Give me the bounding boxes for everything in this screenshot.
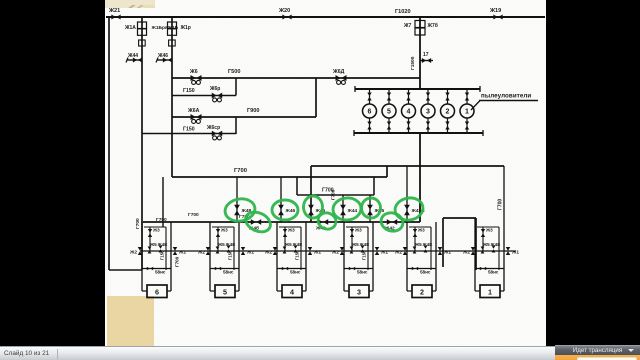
valve Ж4б on distribution line	[251, 219, 261, 225]
valve Ж6А on Г900	[190, 114, 201, 120]
wire furnace 1 left vertical	[474, 218, 476, 270]
wire stub into stove box 5 right	[235, 290, 239, 292]
wire furnace 1 inner-right vertical	[498, 227, 500, 270]
wire furnace 4 loop top	[279, 226, 301, 228]
wire furnace 3 loop top	[346, 226, 368, 228]
wire furnace 5 inner-right vertical	[233, 227, 235, 270]
wire stub into stove box 6 left	[142, 290, 147, 292]
valve below dust collector 1	[465, 122, 469, 130]
wire drop to dust collector 2	[447, 89, 449, 104]
wire furnace 5 left vertical	[209, 222, 211, 270]
dust collector 3	[421, 104, 435, 118]
wire underline at пылеуловители	[479, 100, 538, 102]
wire furnace 5 right drop to stove	[238, 270, 240, 291]
valve seal circles	[337, 80, 341, 84]
wire drop with valve Ж46	[280, 177, 282, 222]
wire furnace 1 right drop to stove	[503, 270, 505, 291]
wire furnace 2 inner-right vertical	[430, 227, 432, 270]
valve Ж2 furnace 3	[340, 247, 344, 255]
tick right end inlet header	[479, 86, 481, 92]
stove box furnace 6	[147, 285, 167, 298]
wire bridge header over furnace 2	[443, 217, 476, 219]
wire from dust collector 6 to outlet header	[369, 118, 371, 133]
highlight circle around Ж42 mid	[316, 210, 338, 231]
wire drop with valve Ж44	[342, 195, 344, 222]
valve Ж44	[340, 205, 346, 215]
valve above dust collector 3	[426, 93, 430, 101]
wire furnace 6 right drop to stove	[170, 270, 172, 291]
valve above dust collector 4	[406, 93, 410, 101]
wire drop to dust collector 5	[388, 89, 390, 104]
wire drop to dust collector 1	[466, 89, 468, 104]
highlight circle around Ж43Б	[393, 196, 424, 223]
wire furnace 2 left vertical	[406, 222, 408, 270]
valve above dust collector 2	[445, 93, 449, 101]
wire furnace 3 left drop to stove	[343, 270, 345, 291]
valve on bottom header furnace 1	[480, 267, 486, 271]
wire from dust collector 5 to outlet header	[388, 118, 390, 133]
wire furnace 6 left drop to stove	[141, 270, 143, 291]
dust collector 1	[460, 104, 474, 118]
valve Ж3 furnace 5	[216, 229, 220, 237]
valve above dust collector 1	[465, 93, 469, 101]
wire drop to dust collector 4	[408, 89, 410, 104]
wire furnace 1 right vertical	[503, 166, 505, 270]
wire drop with valve Ж45	[369, 195, 371, 222]
wire furnace 1 left drop to stove	[474, 270, 476, 291]
valve Ж1 furnace 4	[308, 247, 312, 255]
stove box furnace 1	[480, 285, 500, 298]
highlight circle around Ж47	[272, 200, 298, 220]
wire furnace 5 bottom header	[210, 268, 239, 270]
wire furnace 4 inner-right vertical	[300, 227, 302, 270]
valve Ж5 furnace 5	[216, 247, 220, 254]
wire stub into stove box 1 left	[475, 290, 480, 292]
valve Ж1 furnace 1	[506, 247, 510, 255]
valve 17	[422, 58, 431, 63]
wire furnace 3 right vertical	[372, 222, 374, 270]
wire furnace 2 right drop to stove	[435, 270, 437, 291]
wire furnace 3 inner-left vertical	[351, 227, 353, 251]
wire drop to dust collector 6	[369, 89, 371, 104]
wire Г700 sub-header	[297, 194, 374, 196]
wire stub into stove box 4 left	[277, 290, 282, 292]
valve Ж45	[367, 205, 373, 215]
wire furnace 5 left drop to stove	[209, 270, 211, 291]
highlight circle around Ж44	[332, 197, 362, 221]
wire from dust collector 4 to outlet header	[408, 118, 410, 133]
valve Ж4Е furnace 1	[492, 246, 496, 253]
wire stub with valve 17	[420, 60, 433, 62]
valve below dust collector 5	[387, 122, 391, 130]
wire drop with valve Ж48	[236, 177, 238, 222]
wire stub into stove box 1 right	[500, 290, 504, 292]
wire furnace 2 right vertical	[435, 222, 437, 270]
valve Ж4Е furnace 6	[159, 246, 163, 253]
valve on bottom header furnace 5	[215, 267, 221, 271]
wire furnace 3 left vertical	[343, 222, 345, 270]
end dash vent stub B	[126, 58, 128, 63]
valve Ж5 furnace 3	[350, 247, 354, 254]
valve Ж1 furnace 6	[173, 247, 177, 255]
valve Ж1 furnace 5	[241, 247, 245, 255]
valve Ж1р lower body	[168, 29, 177, 36]
valve on bottom header furnace 4	[282, 267, 288, 271]
highlight circle around Ж42 right	[379, 210, 405, 233]
wire sub-header left drop	[296, 177, 298, 195]
end dash vent stub C	[156, 58, 158, 63]
wire furnace 4 right vertical	[305, 222, 307, 270]
valve Ж21 on main bus	[111, 14, 120, 19]
valve Ж5 furnace 4	[283, 247, 287, 254]
valve Ж3 furnace 4	[283, 229, 287, 237]
wire furnace 5 inner-left vertical	[217, 227, 219, 251]
valve Ж6ср on bypass	[212, 131, 222, 137]
wire bypass riser to Г900	[235, 117, 237, 134]
wire furnace 4 inner-left vertical	[284, 227, 286, 251]
valve Ж4Е furnace 5	[227, 246, 231, 253]
wire interconnecting line Ж1-Ж2 level	[140, 250, 516, 252]
wire dust collector outlet header	[354, 132, 483, 134]
wire stub into stove box 2 left	[407, 290, 412, 292]
wire furnace 5 right vertical	[238, 222, 240, 270]
wire drop with valve Ж43Б	[406, 166, 408, 222]
valve Ж20 on main bus	[282, 14, 291, 19]
wire vent stub from riser B	[127, 59, 142, 61]
dust collector 5	[382, 104, 396, 118]
valve below dust collector 6	[367, 122, 371, 130]
valve Ж2 furnace 6	[138, 247, 142, 255]
valve below dust collector 4	[406, 122, 410, 130]
wire bypass riser to Г500	[235, 78, 237, 96]
wire furnace 6 right vertical	[170, 222, 172, 270]
wire drop feeding furnace 6 loop	[162, 177, 164, 227]
wire stub into stove box 3 left	[344, 290, 349, 292]
wire furnace 3 right drop to stove	[372, 270, 374, 291]
wire Г900 line	[172, 116, 316, 118]
wire furnace 2 inner-left vertical	[414, 227, 416, 251]
valve Ж7 lower body	[415, 28, 425, 35]
valve on bottom header furnace 2	[412, 267, 418, 271]
valve Ж3 furnace 6	[148, 229, 152, 237]
valve Ж43Б	[404, 205, 410, 215]
valve Ж46	[278, 205, 284, 215]
wire vertical riser A (left edge)	[108, 17, 110, 270]
valve Ж2 furnace 1	[471, 247, 475, 255]
wire riser joining Г900 to Г500	[315, 78, 317, 117]
wire distribution line to furnaces	[143, 221, 420, 223]
wire stub into stove box 5 left	[210, 290, 215, 292]
valve seal circles	[192, 119, 196, 123]
wire furnace 4 left drop to stove	[276, 270, 278, 291]
wire Г150 bypass of Ж6	[172, 95, 236, 97]
valve Ж4Е furnace 4	[294, 246, 298, 253]
wire leader line to dust collector 1	[471, 101, 480, 111]
valve Ж19 on main bus	[493, 14, 502, 19]
wire stub into stove box 3 right	[369, 290, 373, 292]
wire furnace 5 loop top	[212, 226, 234, 228]
valve Ж46 on vent stub	[163, 57, 172, 62]
valve Ж3 furnace 3	[350, 229, 354, 237]
wire vertical riser B down to furnace 6	[141, 17, 143, 270]
wire stub into stove box 4 right	[302, 290, 306, 292]
drive box below valve Ж1р	[169, 40, 176, 46]
wire from dust collector 3 to outlet header	[427, 118, 429, 133]
valve below dust collector 2	[445, 122, 449, 130]
wire sub-header right drop	[373, 177, 375, 195]
scan noise texture	[105, 0, 546, 346]
valve on bottom header furnace 6	[147, 267, 153, 271]
wire furnace 4 right drop to stove	[305, 270, 307, 291]
valve seal circles	[192, 80, 196, 84]
valve Ж1 furnace 2	[438, 247, 442, 255]
valve Ж1р electric gate upper body on riser C	[168, 22, 177, 29]
wire drop to dust collector 3	[427, 89, 429, 104]
highlight circle around Ж45 right	[362, 198, 381, 218]
wire riser D from bus to dust collectors	[419, 17, 421, 89]
wire drop joining Г700 main	[386, 166, 388, 177]
valve Ж2 furnace 4	[273, 247, 277, 255]
wire from dust collector 1 to outlet header	[466, 118, 468, 133]
valve above dust collector 6	[367, 93, 371, 101]
stove box furnace 3	[349, 285, 369, 298]
wire dust collector inlet header	[355, 88, 480, 90]
wire furnace 3 bottom header	[344, 268, 373, 270]
valve Ж5 furnace 6	[148, 247, 152, 254]
wire Г500 line	[172, 77, 420, 79]
valve Ж3 furnace 1	[481, 229, 485, 237]
wire from dust collector 2 to outlet header	[447, 118, 449, 133]
dust collector 6	[363, 104, 377, 118]
valve Ж48	[234, 205, 240, 215]
wire vent stub from riser C	[157, 59, 172, 61]
wire furnace 2 bottom header	[407, 268, 436, 270]
wire furnace 1 inner-left vertical	[482, 227, 484, 251]
wire Г150 bypass of Ж6А joining riser B	[142, 133, 236, 135]
valve Ж6р on bypass	[212, 93, 222, 99]
wire bridge right drop to furnace 1	[475, 218, 477, 270]
wire furnace 3 inner-right vertical	[367, 227, 369, 270]
wire vertical riser C (to Г500/Г900/Г700)	[171, 17, 173, 177]
tick left end outlet header	[353, 130, 355, 136]
wire stub into stove box 2 right	[432, 290, 436, 292]
wire bridge left drop	[442, 218, 444, 267]
wire Г700 main header	[172, 176, 387, 178]
wire clean gas header	[311, 165, 504, 167]
valve Ж42 on distribution line	[387, 219, 397, 225]
valve seal circles	[213, 136, 217, 140]
dust collector 4	[402, 104, 416, 118]
valve Ж42 on distribution line	[318, 219, 328, 225]
valve Ж6 on Г500	[190, 75, 201, 81]
wire furnace 1 loop top	[477, 226, 499, 228]
highlight circle around Ж4б	[242, 208, 273, 235]
tick left end inlet header	[354, 86, 356, 92]
stove box furnace 5	[215, 285, 235, 298]
wire furnace 2 left drop to stove	[406, 270, 408, 291]
wire furnace 4 left vertical	[276, 222, 278, 270]
dust collector 2	[441, 104, 455, 118]
wire riser D continuation below dust collectors	[419, 133, 421, 222]
valve Ж4Е furnace 2	[424, 246, 428, 253]
valve Ж5 furnace 2	[413, 247, 417, 254]
valve Ж6Д before dust collectors	[335, 75, 346, 81]
stove box furnace 2	[412, 285, 432, 298]
highlight circle around Ж48	[223, 197, 256, 224]
valve below dust collector 3	[426, 122, 430, 130]
valve Ж45	[308, 205, 314, 215]
valve Ж3 furnace 2	[413, 229, 417, 237]
valve Ж44 on vent stub	[133, 57, 142, 62]
wire stub into stove box 6 right	[167, 290, 171, 292]
wire furnace 6 left vertical	[141, 222, 143, 270]
valve Ж2 furnace 5	[206, 247, 210, 255]
wire drop at x311 with valve Ж45	[310, 166, 312, 222]
drive box below valve Ж1Б	[139, 40, 146, 46]
valve Ж7 electric gate upper body on riser D	[415, 21, 425, 28]
wire furnace 6 inner-left vertical	[149, 227, 151, 251]
wire furnace 6 bottom header	[142, 268, 171, 270]
wire furnace 4 bottom header	[277, 268, 306, 270]
valve Ж5 furnace 1	[481, 247, 485, 254]
valve seal circles	[213, 98, 217, 102]
wire main gas bus Г1020	[106, 16, 545, 18]
wire furnace 6 loop top	[144, 226, 166, 228]
stove box furnace 4	[282, 285, 302, 298]
valve on bottom header furnace 3	[349, 267, 355, 271]
wire furnace 1 bottom header	[475, 268, 504, 270]
valve Ж1 furnace 3	[375, 247, 379, 255]
valve Ж1Б electric gate upper body on riser B	[138, 22, 147, 29]
wire furnace 2 loop top	[409, 226, 431, 228]
wire furnace 6 inner-right vertical	[165, 227, 167, 270]
valve Ж4Е furnace 3	[361, 246, 365, 253]
tick right end outlet header	[482, 130, 484, 136]
valve Ж1Б lower body	[138, 29, 147, 36]
wire bottom connection riser A to furnace 6	[109, 269, 142, 271]
valve above dust collector 5	[387, 93, 391, 101]
valve Ж2 furnace 2	[403, 247, 407, 255]
highlight circle around Ж45	[304, 196, 323, 218]
